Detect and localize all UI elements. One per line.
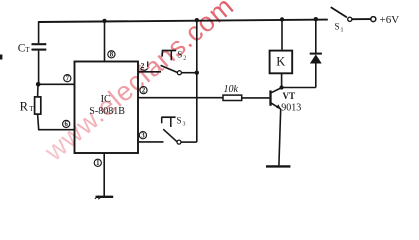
- wire: pin 1 to ground: [103, 153, 105, 196]
- pin 3 label: [139, 132, 146, 140]
- wire: pin 2 lower to 10k: [138, 97, 223, 99]
- node: diode junction on rail: [314, 17, 318, 21]
- wire: 10k to transistor base: [242, 97, 270, 99]
- svg-text:10k: 10k: [224, 84, 239, 95]
- node: relay junction on rail: [280, 17, 284, 21]
- wire: S3 to supply line: [181, 141, 197, 143]
- svg-text:IC: IC: [101, 94, 111, 105]
- svg-text:8: 8: [110, 52, 114, 59]
- diode VD (flyback): [310, 19, 322, 87]
- svg-text:3: 3: [141, 132, 145, 139]
- ground (IC pin 1): [95, 196, 113, 200]
- wire: rail to relay K: [281, 20, 283, 51]
- svg-text:T: T: [29, 105, 34, 113]
- svg-text:S-8081B: S-8081B: [89, 106, 125, 117]
- wire: +6V top rail: [39, 20, 328, 22]
- node: collector junction: [280, 85, 284, 89]
- pin 8 label: [108, 51, 115, 59]
- wire: relay K to collector node: [281, 73, 283, 87]
- pushbutton S2: [161, 50, 187, 75]
- watermark www.elecfans.com: [38, 0, 239, 167]
- wire: emitter to ground: [279, 109, 281, 165]
- wire: supply drop line for S2/S3: [196, 20, 198, 142]
- ground (emitter): [266, 165, 290, 167]
- pin 6 label: [63, 120, 70, 128]
- wire: S2 to supply line: [181, 72, 196, 74]
- svg-text:7: 7: [66, 75, 70, 82]
- svg-text:1: 1: [341, 28, 344, 34]
- pin 2 label (upper): [141, 61, 148, 70]
- svg-text:6: 6: [64, 121, 68, 128]
- scan artifact left edge: [0, 55, 2, 60]
- node: switch-supply junction on rail: [195, 18, 199, 22]
- node: S2/supply junction: [195, 71, 199, 75]
- pin 2 label (lower): [140, 87, 147, 95]
- resistor RT: [20, 97, 41, 114]
- terminal +6V: [371, 14, 399, 26]
- svg-text:+6V: +6V: [380, 14, 400, 26]
- svg-text:2: 2: [183, 56, 186, 62]
- op-amp/IC U1 S-8081B: [75, 62, 139, 154]
- wire: pin 8 to rail: [104, 21, 106, 62]
- switch S1: [331, 7, 352, 33]
- svg-text:S: S: [177, 116, 182, 126]
- wire: capacitor bottom lead to node A: [38, 51, 40, 85]
- node A: CT/RT/pin7 junction: [36, 82, 41, 87]
- svg-text:2: 2: [142, 87, 146, 94]
- transistor VT 9013: [271, 88, 302, 114]
- wire: pin 7: [38, 83, 74, 85]
- svg-text:VT: VT: [283, 91, 296, 101]
- wire: pin 3 to S3: [138, 141, 164, 143]
- node: pin8 junction on rail: [102, 19, 106, 23]
- pin 7 label: [64, 75, 71, 83]
- svg-text:9013: 9013: [281, 103, 301, 114]
- wire: node A to resistor RT: [37, 84, 39, 97]
- pin 1 label: [94, 159, 101, 167]
- relay K: [270, 51, 293, 74]
- svg-text:S: S: [177, 50, 182, 60]
- svg-text:K: K: [276, 55, 285, 69]
- svg-text:R: R: [20, 99, 29, 113]
- svg-text:T: T: [25, 46, 30, 54]
- svg-text:3: 3: [183, 122, 186, 128]
- wire: RT bottom to IC pin 6: [38, 114, 75, 130]
- pushbutton S3: [161, 116, 185, 145]
- resistor 10k: [223, 84, 242, 101]
- wire: S1 to +6V terminal: [352, 18, 370, 20]
- svg-text:1: 1: [96, 160, 100, 167]
- svg-text:S: S: [335, 22, 340, 32]
- wire: pin 2 upper to S2: [138, 71, 161, 73]
- capacitor CT: [18, 42, 47, 54]
- wire: capacitor top lead: [38, 21, 40, 43]
- wire: collector node to diode: [282, 87, 316, 89]
